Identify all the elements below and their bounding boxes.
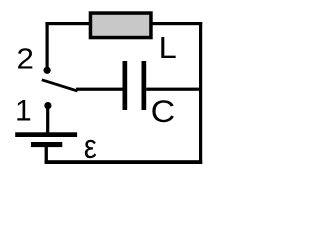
wire capacitor right plate to right rail	[146, 88, 200, 91]
svg-text:C: C	[151, 93, 176, 129]
wire battery negative plate to bottom rail	[45, 147, 48, 163]
wire top rail	[45, 22, 202, 25]
wire switch pivot to capacitor left plate	[76, 88, 124, 91]
battery BT1 positive plate (long)	[15, 132, 77, 137]
wire node 1 down to battery positive plate	[46, 108, 49, 133]
capacitor C1 left plate	[123, 61, 128, 110]
svg-text:ε: ε	[84, 128, 97, 166]
svg-text:1: 1	[15, 95, 32, 128]
node 1 (switch contact)	[44, 102, 51, 109]
node 2 (switch contact)	[44, 67, 51, 74]
wire right rail	[199, 22, 202, 164]
inductor L1	[89, 11, 153, 39]
svg-text:L: L	[159, 31, 177, 65]
battery BT1 negative plate (short)	[31, 142, 62, 147]
wire bottom rail	[45, 160, 203, 164]
wire left vertical to switch contact 2	[46, 22, 49, 71]
svg-text:2: 2	[17, 44, 34, 76]
switch S1 arm (open, between contacts)	[42, 80, 78, 91]
capacitor C1 right plate	[142, 61, 147, 110]
